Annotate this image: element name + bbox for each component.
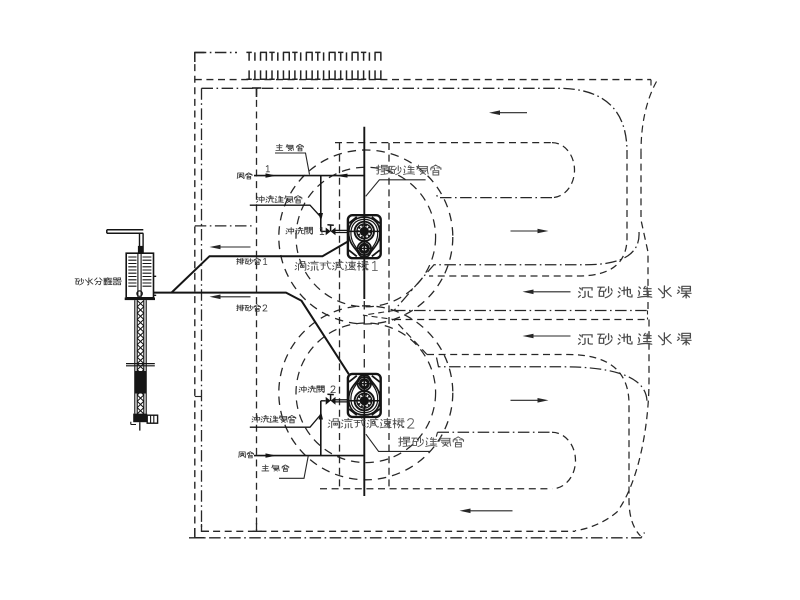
vortex basin 2 outer circle: [279, 306, 453, 480]
left notch dash-dot line: [195, 225, 254, 227]
upper island rounded end: [552, 143, 575, 198]
left inner boundary wall: [201, 88, 203, 531]
label: flush valve 1: [286, 227, 324, 234]
vortex basin 2 inner circle: [296, 323, 436, 463]
air duct line (feng guan 2): [254, 455, 364, 457]
valve 1 to machine double pipe: [336, 230, 349, 232]
label: sand lift air pipe 2: [399, 437, 464, 447]
separator centre shaft: [138, 253, 141, 298]
flush valve 1: [326, 228, 331, 236]
flush air inlet pipe 2 leader/line: [250, 415, 321, 428]
flush valve 2: [326, 397, 331, 405]
bar screen grating (plan): [246, 52, 381, 79]
separator bottom flange: [125, 298, 155, 301]
outer funnel line top right: [641, 82, 657, 153]
left boundary corner jog: [195, 396, 202, 398]
lower island bottom wall: [320, 488, 552, 490]
flush air vertical pipe 1: [320, 176, 322, 232]
right outer channel wall vertical: [641, 152, 648, 311]
inner left channel wall x=256: [256, 88, 258, 531]
bottom boundary dashed line: [202, 530, 576, 532]
flow arrow lower return channel (right): [511, 399, 538, 401]
boundary top-left corner: [195, 53, 205, 63]
separator bottom circle: [137, 291, 142, 296]
vortex speed reducer machine 1: [348, 215, 381, 258]
label: main air pipe 2: [262, 465, 289, 472]
label: flush valve 2: [299, 386, 336, 393]
flush air inlet pipe 1 leader/line: [250, 205, 321, 217]
left outer boundary wall: [194, 53, 196, 538]
lower inlet channel lower wall (dash-dot) sweeping to bottom: [437, 358, 648, 403]
right outer wall below throat: [575, 320, 649, 531]
sand lift air pipe 1 (vertical, machine 1 axis): [363, 127, 365, 215]
vortex basin 1 outer circle: [279, 150, 453, 324]
flush air vertical pipe 2: [320, 401, 322, 456]
vortex speed reducer machine 2: [348, 374, 381, 417]
bottom outer dash-dot boundary: [189, 533, 645, 538]
flow arrow inlet channel 2 (left): [534, 335, 571, 337]
lower inlet channel upper wall sweep: [394, 320, 427, 355]
label: sand lift air pipe 1: [377, 165, 441, 175]
flow arrow discharge pipe 1 (left): [221, 246, 251, 248]
throat lower wall: [394, 319, 648, 321]
boundary top dash-dot stub: [195, 52, 237, 54]
label: air duct 2: [239, 452, 254, 458]
throat upper wall: [394, 310, 648, 312]
tube support bracket: [126, 364, 155, 366]
throat right end jog: [647, 311, 649, 320]
sand lift air pipe 2 leader: [366, 434, 430, 451]
lower island rounded end: [552, 432, 576, 489]
vortex basin 1 inner circle: [296, 167, 436, 307]
centreline between machines: [363, 301, 365, 372]
label: main air pipe 1: [276, 144, 303, 151]
label: vortex speed reducer 1: [295, 261, 377, 271]
boundary bottom-left corners: [195, 528, 204, 538]
top inner dash-dot boundary curving to right funnel: [202, 88, 628, 152]
flow arrow top channel (left): [500, 112, 527, 114]
sand discharge pipe 2 (from machine 2 to separator): [154, 293, 349, 375]
label: vortex speed reducer 2: [328, 418, 414, 428]
sand lift air pipe 1 leader: [366, 180, 426, 197]
label: air duct 1: [237, 173, 252, 179]
screw spiral: [137, 301, 144, 414]
pipe number 1 tick: [266, 166, 269, 172]
separator riser pipe: [140, 233, 144, 253]
right inner channel wall vertical + sweep to upper inlet channel: [429, 152, 627, 276]
flow arrow discharge pipe 2 (left): [221, 296, 251, 298]
label: grit chamber inlet channel 2: [578, 333, 691, 345]
main air pipe 1 leader: [275, 153, 310, 175]
screw conveyor tube: [135, 300, 146, 414]
label: sand discharge pipe 2: [237, 305, 267, 312]
sand discharge pipe 1 (from machine 1 to separator): [172, 241, 349, 292]
pit wall left vertical: [339, 143, 341, 489]
main air pipe 2 leader: [279, 456, 308, 479]
upper island bottom wall dash-dot: [436, 193, 552, 197]
label: sand discharge pipe 1: [237, 258, 267, 265]
label: flush air inlet pipe 2: [252, 415, 296, 422]
label: sand-water separator: [75, 278, 121, 285]
air duct line (feng guan 1): [254, 175, 364, 177]
top boundary dashed line: [195, 79, 651, 81]
label: grit chamber inlet channel 1: [578, 286, 691, 298]
separator screen plates: [128, 257, 151, 286]
machine 1 axis below: [363, 258, 365, 299]
flow arrow upper return channel (right): [511, 230, 538, 232]
upper island top wall: [335, 142, 552, 144]
screw dark section: [135, 371, 146, 394]
flow arrow bottom channel (left): [471, 510, 513, 512]
sand-water separator : discharge spout: [107, 230, 144, 234]
riser collar: [138, 246, 143, 253]
pit wall right vertical: [388, 143, 390, 489]
upper inlet channel outer wall (dash-dot) with diagonal to throat: [394, 232, 639, 311]
label: flush air inlet pipe 1: [256, 196, 301, 203]
separator body box: [126, 253, 153, 298]
lower island top wall dash-dot: [438, 431, 553, 433]
machine 2 axis below / sand lift pipe 2: [363, 415, 365, 496]
bottom drive assembly: [133, 414, 147, 423]
throat apex (closed left end): [363, 311, 394, 320]
flow arrow inlet channel 1 (left): [534, 291, 571, 293]
separator side ticks: [154, 276, 157, 295]
valve 2 to machine double pipe: [336, 400, 349, 402]
